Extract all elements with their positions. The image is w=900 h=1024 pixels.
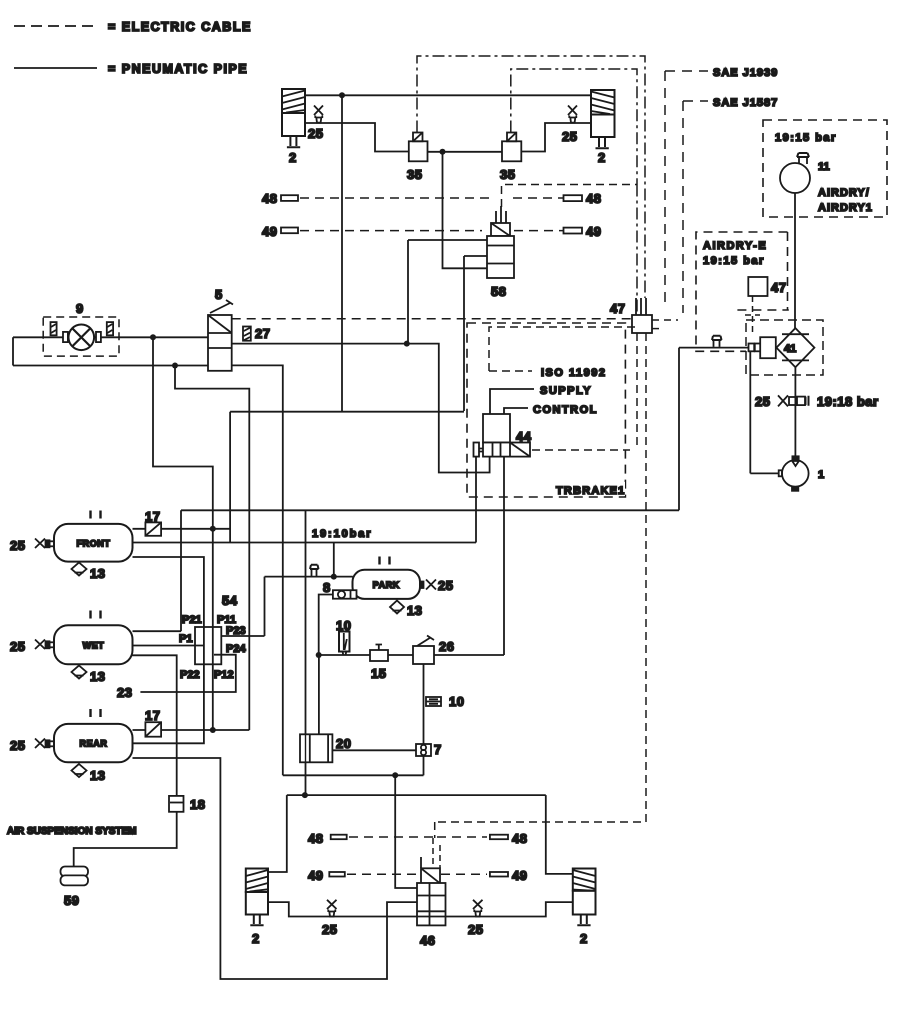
svg-text:19:15 bar: 19:15 bar (703, 255, 765, 267)
svg-text:AIRDRY/: AIRDRY/ (818, 187, 870, 199)
svg-text:P21: P21 (182, 614, 202, 626)
svg-text:REAR: REAR (80, 739, 108, 749)
svg-text:= PNEUMATIC PIPE: = PNEUMATIC PIPE (108, 62, 248, 76)
svg-text:ISO 11992: ISO 11992 (541, 367, 607, 379)
svg-text:7: 7 (434, 742, 442, 757)
svg-text:47: 47 (610, 301, 625, 316)
svg-text:26: 26 (439, 639, 454, 654)
svg-text:2: 2 (252, 931, 260, 946)
svg-text:41: 41 (784, 343, 796, 355)
svg-text:46: 46 (420, 933, 435, 948)
svg-text:15: 15 (371, 666, 386, 681)
svg-text:TRBRAKE1: TRBRAKE1 (556, 485, 626, 497)
svg-text:8: 8 (323, 580, 331, 595)
svg-text:= ELECTRIC CABLE: = ELECTRIC CABLE (108, 20, 252, 34)
svg-text:48: 48 (586, 191, 601, 206)
svg-text:48: 48 (512, 831, 527, 846)
svg-text:35: 35 (407, 167, 422, 182)
svg-text:5: 5 (215, 287, 223, 302)
svg-text:2: 2 (580, 931, 588, 946)
svg-text:P12: P12 (214, 669, 234, 681)
svg-text:25: 25 (755, 394, 770, 409)
svg-text:1: 1 (818, 469, 824, 481)
svg-text:2: 2 (598, 150, 606, 165)
svg-text:13: 13 (90, 566, 105, 581)
svg-text:P22: P22 (180, 669, 200, 681)
svg-text:AIR SUSPENSION SYSTEM: AIR SUSPENSION SYSTEM (7, 826, 136, 837)
svg-text:25: 25 (10, 538, 25, 553)
svg-text:SUPPLY: SUPPLY (540, 385, 592, 397)
svg-text:FRONT: FRONT (77, 539, 111, 549)
svg-text:AIRDRY1: AIRDRY1 (818, 202, 873, 214)
svg-text:27: 27 (255, 326, 270, 341)
svg-text:25: 25 (438, 578, 453, 593)
svg-text:49: 49 (262, 224, 277, 239)
svg-text:25: 25 (10, 639, 25, 654)
svg-text:WET: WET (83, 641, 105, 651)
svg-text:13: 13 (407, 603, 422, 618)
svg-text:10: 10 (449, 694, 464, 709)
svg-text:25: 25 (468, 922, 483, 937)
svg-text:19:10bar: 19:10bar (312, 528, 372, 540)
svg-text:47: 47 (771, 280, 786, 295)
svg-text:11: 11 (818, 161, 830, 173)
svg-text:13: 13 (90, 669, 105, 684)
svg-text:19:15 bar: 19:15 bar (775, 132, 837, 144)
svg-text:13: 13 (90, 768, 105, 783)
svg-text:23: 23 (117, 685, 132, 700)
svg-text:25: 25 (562, 129, 577, 144)
svg-text:P1: P1 (179, 633, 192, 645)
svg-text:59: 59 (64, 893, 79, 908)
svg-text:AIRDRY-E: AIRDRY-E (703, 240, 767, 252)
svg-text:54: 54 (222, 593, 238, 608)
svg-text:35: 35 (500, 167, 515, 182)
svg-text:2: 2 (289, 150, 297, 165)
svg-text:49: 49 (512, 868, 527, 883)
svg-text:17: 17 (145, 708, 160, 723)
svg-text:18: 18 (190, 797, 205, 812)
svg-text:P24: P24 (226, 643, 246, 655)
svg-text:CONTROL: CONTROL (533, 404, 598, 416)
svg-text:PARK: PARK (373, 580, 400, 590)
svg-text:20: 20 (336, 736, 351, 751)
svg-text:48: 48 (308, 831, 323, 846)
svg-text:25: 25 (322, 922, 337, 937)
svg-text:25: 25 (10, 738, 25, 753)
svg-text:49: 49 (586, 224, 601, 239)
svg-text:19:18 bar: 19:18 bar (817, 394, 879, 409)
svg-text:9: 9 (76, 301, 84, 316)
svg-text:SAE J1587: SAE J1587 (713, 97, 778, 109)
svg-text:58: 58 (491, 284, 506, 299)
svg-text:48: 48 (262, 191, 277, 206)
svg-text:49: 49 (308, 868, 323, 883)
svg-text:25: 25 (308, 126, 323, 141)
svg-text:SAE J1939: SAE J1939 (713, 67, 778, 79)
